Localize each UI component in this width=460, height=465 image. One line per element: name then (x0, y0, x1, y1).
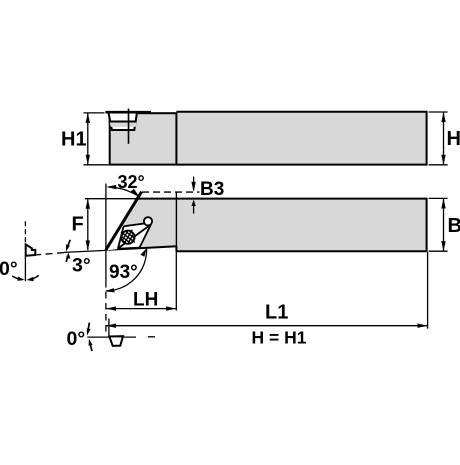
dimension B3 (191, 177, 224, 214)
bottom 0 degree indicator (67, 323, 93, 351)
clamp side view (105, 112, 151, 130)
clamp screw plan view (117, 227, 138, 248)
svg-text:0°: 0° (67, 328, 86, 350)
dimension L1 (106, 302, 428, 328)
svg-text:B: B (448, 215, 460, 237)
bottom small view insert front (109, 336, 123, 346)
svg-text:93°: 93° (109, 262, 138, 283)
shank plan view (106, 198, 427, 251)
32 degree vertical reference (105, 184, 107, 250)
cutting edge slant (106, 192, 142, 250)
dimension LH (106, 290, 176, 311)
3 degree indicator (66, 240, 91, 277)
svg-text:3°: 3° (72, 255, 91, 277)
head side view (110, 113, 177, 164)
svg-text:F: F (72, 214, 84, 236)
bottom small view reference line (87, 319, 155, 338)
shank side view (176, 112, 426, 165)
svg-text:B3: B3 (200, 179, 224, 200)
dimension H1 (61, 113, 109, 165)
svg-text:32°: 32° (118, 172, 145, 192)
93 degree arc (105, 248, 147, 292)
svg-text:H = H1: H = H1 (252, 327, 307, 347)
left small view insert profile (26, 245, 36, 256)
svg-text:H: H (447, 128, 460, 150)
svg-text:H1: H1 (61, 129, 87, 151)
screw axis side view (128, 109, 130, 144)
head plan view bottom edge (3 deg) (106, 246, 177, 251)
dimension F (72, 199, 138, 251)
dimension H (429, 112, 460, 165)
clamp plan view (118, 217, 152, 249)
LH extension lines (106, 248, 176, 334)
L1 right extension (427, 252, 429, 328)
dimension B (429, 198, 460, 251)
3 degree edge extension line (37, 250, 106, 254)
left 0 degree label (0, 258, 39, 281)
32 degree arc (106, 172, 145, 197)
left small view centerline (24, 221, 26, 281)
tip plane dashed line (142, 191, 200, 193)
insert plan view (106, 224, 152, 251)
head-shank step plan view (175, 192, 177, 247)
svg-text:LH: LH (133, 290, 158, 311)
svg-text:L1: L1 (265, 302, 288, 324)
